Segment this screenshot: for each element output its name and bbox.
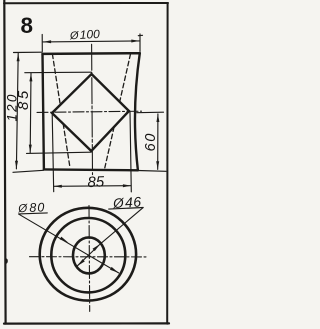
- dim 120 bottom extension: [13, 170, 44, 172]
- dim 85 left line: [29, 73, 32, 152]
- dim 85 left bottom extension: [27, 152, 92, 153]
- hidden cone hole right lower (dashed): [105, 127, 114, 168]
- leader line dia46: [77, 208, 143, 267]
- leader dia80 arrow mid: [60, 237, 69, 243]
- leader dia46 arrow lower: [77, 259, 85, 266]
- svg-text:85: 85: [87, 173, 105, 191]
- hidden cone hole left lower (dashed): [63, 124, 70, 168]
- cylinder outline left edge: [43, 54, 44, 169]
- tick at right extension top: [138, 34, 142, 36]
- label dia46 underline: [109, 208, 144, 210]
- dim 120 arrow bottom: [15, 161, 18, 169]
- dim 60 top extension: [137, 111, 164, 114]
- border frame left: [4, 0, 5, 324]
- dim 120 top extension: [14, 51, 43, 53]
- dim 85 bottom arrow right: [123, 184, 131, 187]
- svg-text:60: 60: [143, 132, 159, 151]
- svg-text:Ø80: Ø80: [17, 200, 46, 215]
- dim 85 bottom text: [87, 173, 105, 191]
- square hole (diamond): [52, 74, 129, 151]
- dim 60 bottom extension: [138, 170, 166, 173]
- border frame right: [166, 3, 168, 324]
- bottom view inner circle: [73, 237, 105, 273]
- dim 85 left arrow top: [29, 73, 32, 81]
- dim 85 bottom line: [54, 185, 131, 188]
- dim 85 bottom arrow left: [54, 185, 62, 188]
- label dia46 text: [112, 193, 142, 211]
- dim 60 line: [157, 114, 159, 169]
- horizontal center line front view: [37, 111, 142, 112]
- leader line dia80: [19, 214, 119, 273]
- dim 85 left text: [15, 88, 32, 110]
- label dia80 underline: [19, 213, 48, 214]
- dim 100 arrow left: [43, 40, 51, 43]
- dim 100 right extension: [139, 34, 141, 52]
- vertical center line front view: [91, 44, 94, 174]
- hidden cone hole left upper (dashed): [52, 54, 60, 105]
- dim 85 left top extension: [25, 71, 92, 74]
- leader dia46 arrow upper: [93, 244, 101, 251]
- svg-text:Ø46: Ø46: [112, 193, 142, 211]
- dim 100 arrow right: [131, 40, 139, 43]
- label dia80 text: [17, 200, 46, 215]
- dim 100 line: [43, 41, 139, 42]
- dim 60 text: [143, 132, 159, 151]
- cylinder outline right edge: [135, 53, 140, 170]
- cylinder outline top edge: [43, 52, 140, 55]
- dim 120 line: [16, 53, 18, 169]
- bottom view middle circle: [51, 218, 125, 292]
- dim 85 bottom right extension: [130, 112, 131, 192]
- dim 60 arrow bottom: [156, 161, 159, 169]
- cylinder outline bottom edge: [44, 168, 138, 171]
- bottom view outer circle: [40, 208, 136, 301]
- svg-text:85: 85: [15, 88, 32, 110]
- dim 60 arrow top: [156, 114, 159, 122]
- border frame top: [4, 2, 168, 4]
- bottom view horizontal center line: [30, 256, 148, 258]
- dim 85 left arrow bottom: [29, 145, 32, 153]
- bottom view vertical center line: [88, 206, 91, 312]
- svg-text:Ø100: Ø100: [69, 27, 101, 42]
- dim 120 arrow top: [17, 53, 20, 61]
- dim 120 text: [5, 92, 20, 121]
- ink blot on left frame: [5, 258, 8, 263]
- svg-text:8: 8: [21, 13, 34, 38]
- dim 100 left extension: [41, 35, 43, 52]
- leader dia80 arrow end: [110, 267, 119, 273]
- border frame bottom: [4, 322, 169, 324]
- hidden cone hole right upper (dashed): [120, 54, 131, 102]
- dim 100 text: [69, 27, 101, 42]
- dim 85 bottom left extension: [52, 114, 54, 192]
